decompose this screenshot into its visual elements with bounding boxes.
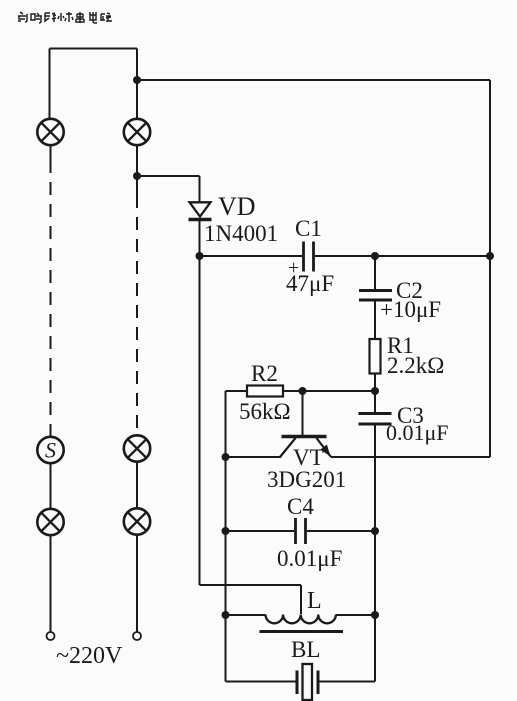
wire: left string between S lamp and lower lamp	[50, 463, 52, 509]
wire: left string top vertical	[49, 49, 51, 119]
wire: right rail vertical	[489, 80, 491, 457]
wire: down to diode	[199, 176, 201, 202]
junction dot L left	[222, 611, 230, 619]
junction dot base node	[371, 387, 379, 395]
wire: C2 branch	[374, 256, 376, 290]
wire: base rail left segment	[226, 390, 248, 392]
wire: left string to terminal	[50, 535, 52, 631]
title 鸟鸣彩灯串电路	[18, 12, 112, 23]
svg-text:0.01μF: 0.01μF	[277, 546, 342, 571]
svg-text:3DG201: 3DG201	[267, 467, 346, 492]
capacitor C1 47uF	[304, 242, 314, 272]
wire: C4 rail right	[307, 530, 375, 532]
resistor R2 56k	[247, 386, 283, 397]
svg-text:~220V: ~220V	[56, 643, 123, 669]
wire: bottom rail left	[226, 681, 297, 683]
wire: right string to terminal	[136, 535, 138, 632]
wire: node rail to C1	[200, 255, 303, 257]
wire: right string between lamps	[136, 462, 138, 509]
wire: C3 down across emitter wire	[374, 424, 376, 531]
wire: left vertical of oscillator block	[225, 391, 227, 682]
wire: C1 to right rail	[315, 255, 490, 257]
lamp EL (left string, lower)	[37, 509, 63, 535]
wire: base vertical	[302, 391, 304, 435]
wire: top horizontal between lamp strings	[50, 48, 138, 50]
junction dot L right	[371, 611, 379, 619]
capacitor C4 0.01uF	[296, 518, 306, 544]
svg-text:C1: C1	[295, 216, 322, 241]
wire: branch to diode	[137, 175, 200, 177]
terminal (right, AC)	[133, 632, 141, 640]
svg-text:2.2kΩ: 2.2kΩ	[387, 353, 444, 378]
wire: right string top vertical	[136, 49, 138, 119]
wire: R2 to base node	[283, 390, 375, 392]
svg-text:S: S	[45, 438, 56, 463]
wire: diode to node	[199, 221, 201, 256]
wire: right vertical of oscillator block	[374, 457, 376, 682]
svg-text:56kΩ: 56kΩ	[239, 399, 291, 424]
junction dot C4 right	[371, 527, 379, 535]
resistor R1 2.2k	[370, 339, 381, 374]
junction dot right string to diode branch	[133, 172, 141, 180]
wire: right string below top lamp	[136, 145, 138, 195]
svg-text:C4: C4	[287, 494, 314, 519]
lamp EL (right string, top)	[124, 119, 150, 145]
svg-text:0.01μF: 0.01μF	[386, 420, 449, 445]
wire: bottom rail right	[319, 681, 375, 683]
svg-text:L: L	[307, 588, 322, 614]
svg-text:R2: R2	[251, 361, 278, 386]
wire: DC feed horizontal to coil tap	[200, 584, 302, 586]
svg-text:BL: BL	[291, 637, 320, 662]
junction dot collector node	[222, 453, 230, 461]
wire: C3 branch from base node	[374, 391, 376, 413]
flasher lamp S (left string)	[37, 437, 63, 463]
wire: emitter to right rail	[331, 456, 490, 458]
lamp EL (right string, lower)	[124, 508, 150, 534]
wire: L rail left	[226, 614, 266, 616]
junction dot at right string top rail	[133, 76, 141, 84]
inductor core bar	[260, 630, 344, 633]
wire: DC feed down left of block	[199, 256, 201, 585]
wire: collector to left vertical	[226, 456, 282, 458]
junction dot at base tap	[299, 387, 307, 395]
junction dot at C2 top	[371, 252, 379, 260]
diode VD 1N4001	[189, 202, 212, 219]
junction dot diode output node	[196, 252, 204, 260]
terminal (left, AC)	[47, 632, 55, 640]
wire: L rail right	[336, 614, 375, 616]
svg-text:47μF: 47μF	[286, 271, 334, 296]
junction dot C4 left	[222, 527, 230, 535]
svg-text:VD: VD	[218, 192, 256, 221]
svg-text:+10μF: +10μF	[380, 297, 441, 322]
wire: left string below top lamp (solid then dashed)	[50, 145, 52, 160]
wire: R1 to base node	[374, 374, 376, 392]
capacitor C2 10uF	[359, 291, 392, 301]
wire: coil tap vertical	[300, 585, 302, 614]
wire: top rail to right side	[137, 79, 490, 81]
wire: C4 rail left	[226, 530, 295, 532]
wire: C2 to R1	[374, 301, 376, 340]
lamp EL (left string, top)	[37, 119, 63, 145]
sounder BL	[297, 664, 318, 700]
wire: right string dashed	[136, 195, 138, 435]
capacitor C3 0.01uF	[359, 414, 392, 425]
junction dot right rail	[486, 252, 494, 260]
svg-text:1N4001: 1N4001	[204, 221, 278, 246]
inductor L	[266, 615, 336, 624]
transistor VT 3DG201	[280, 437, 331, 458]
lamp EL (right string, middle)	[124, 435, 150, 461]
